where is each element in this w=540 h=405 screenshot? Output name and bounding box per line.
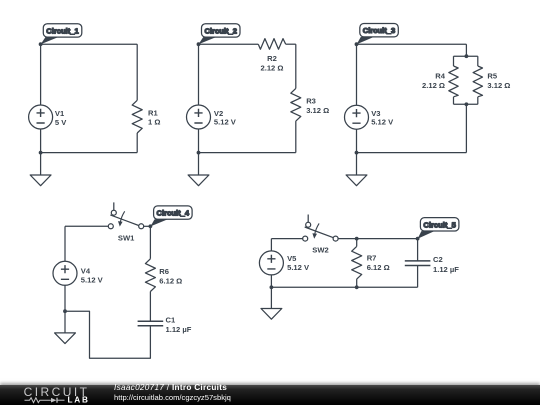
resistor R6 [145, 259, 155, 292]
switch SW2 lever [305, 227, 333, 238]
ground (circuit 4) [55, 333, 76, 344]
wire: R4 top lead [453, 56, 455, 66]
svg-text:5.12 V: 5.12 V [81, 276, 104, 285]
wire: C2 bottom lead [417, 266, 419, 288]
wire: R7 top lead [356, 239, 358, 247]
wire: circuit 3 top rail [357, 43, 467, 45]
switch SW1 top contact [111, 210, 116, 215]
svg-text:6.12 Ω: 6.12 Ω [367, 263, 390, 272]
svg-text:Circuit_2: Circuit_2 [204, 26, 237, 35]
ground (circuit 1) [30, 175, 51, 186]
svg-text:Circuit_1: Circuit_1 [46, 26, 79, 35]
callout Circuit_4 [151, 219, 168, 226]
svg-text:C2: C2 [433, 255, 443, 264]
wire: parallel top bus [454, 55, 478, 57]
svg-text:5.12 V: 5.12 V [287, 263, 310, 272]
svg-text:R3: R3 [306, 97, 316, 106]
voltage source V3 [345, 105, 369, 129]
svg-text:6.12 Ω: 6.12 Ω [159, 276, 182, 285]
wire: circuit 3 bottom rail [357, 152, 467, 154]
svg-text:Circuit_5: Circuit_5 [423, 220, 456, 229]
resistor R1 [132, 100, 142, 133]
wire: SW2 top throw stub [307, 215, 309, 223]
wire: SW2 common to R7 node [338, 238, 357, 240]
svg-text:5 V: 5 V [55, 118, 67, 127]
wire: circuit 1 top rail [41, 43, 138, 45]
callout Circuit_3 [357, 37, 374, 44]
resistor R7 [352, 246, 362, 279]
wire: circuit 2 top rail right [286, 43, 296, 45]
node: circuit 4 bottom-left junction [63, 309, 67, 313]
node: circuit 5 switch output junction [355, 237, 359, 241]
switch SW1 left contact [108, 224, 113, 229]
wire: circuit 3 left side top [356, 44, 358, 105]
node: R7 bottom junction [355, 285, 359, 289]
wire: circuit 4 left side top [64, 226, 66, 261]
wire: SW1 common to node [144, 225, 151, 227]
wire: circuit 1 left side bottom to ground [40, 129, 42, 175]
node: circuit 1 bottom-left junction [39, 151, 43, 155]
resistor R5 [473, 66, 482, 97]
node: C2 top junction [416, 237, 420, 241]
ground (circuit 3) [346, 175, 367, 186]
svg-text:Circuit_3: Circuit_3 [363, 26, 396, 35]
wire: circuit 2 bottom rail [199, 152, 296, 154]
wire: circuit 2 left side bottom to ground [198, 129, 200, 175]
svg-text:V4: V4 [81, 267, 91, 276]
wire: circuit 2 right side top lead [295, 44, 297, 88]
resistor R2 [258, 39, 285, 50]
svg-text:LAB: LAB [68, 396, 90, 405]
switch SW2 left contact [303, 236, 308, 241]
svg-text:R1: R1 [148, 108, 158, 117]
wire: R5 top lead [477, 56, 479, 66]
svg-text:R5: R5 [487, 71, 497, 80]
svg-text:1 Ω: 1 Ω [148, 118, 160, 127]
svg-text:2.12 Ω: 2.12 Ω [261, 64, 284, 73]
wire: circuit 3 left side bottom to ground [356, 129, 358, 175]
footer bar [0, 385, 540, 405]
svg-text:2.12 Ω: 2.12 Ω [422, 81, 445, 90]
node: parallel pair top junction [465, 54, 469, 58]
wire: SW1 top throw stub [113, 202, 115, 210]
wire: circuit 3 right side down [465, 104, 467, 152]
voltage source V5 [259, 251, 283, 275]
voltage source V4 [53, 261, 77, 285]
wire: circuit 5 left side bottom to ground [270, 275, 272, 309]
wire: circuit 5 left side top [270, 239, 272, 251]
switch SW2 top contact [306, 222, 311, 227]
ground (circuit 2) [188, 175, 209, 186]
resistor R4 [449, 66, 458, 97]
wire: circuit 3 top drop to parallel pair [465, 44, 467, 56]
wire: circuit 5 top rail to switch [271, 238, 302, 240]
node: circuit 2 top-left junction [197, 42, 201, 46]
svg-text:Circuit_4: Circuit_4 [157, 209, 190, 218]
node: circuit 3 bottom-left junction [355, 151, 359, 155]
node: circuit 2 bottom-left junction [197, 151, 201, 155]
footer credit text [114, 384, 227, 392]
node: circuit 4 switch output junction [149, 224, 153, 228]
wire: circuit 2 top rail left [199, 43, 259, 45]
wire: circuit 2 left side top [198, 44, 200, 105]
svg-text:V5: V5 [287, 254, 297, 263]
wire: circuit 5 bottom rail [271, 286, 417, 288]
wire: circuit 1 right side top lead [136, 44, 138, 100]
capacitor C2 [405, 261, 431, 266]
svg-text:C1: C1 [166, 316, 176, 325]
ground (circuit 5) [261, 309, 282, 320]
svg-text:R2: R2 [267, 54, 277, 63]
wire: R4 bottom lead [453, 97, 455, 104]
svg-text:1.12 µF: 1.12 µF [433, 265, 459, 274]
svg-text:SW2: SW2 [312, 246, 328, 255]
svg-text:3.12 Ω: 3.12 Ω [306, 106, 329, 115]
svg-text:SW1: SW1 [118, 233, 135, 242]
wire: R6 to C1 [149, 291, 151, 321]
wire: parallel bottom bus [454, 103, 478, 105]
wire: circuit 2 right side bottom lead [295, 121, 297, 153]
node: circuit 5 bottom-left junction [270, 285, 274, 289]
switch SW1 actuation arrow [120, 211, 124, 222]
wire: circuit 4 top rail to switch [65, 225, 108, 227]
voltage source V1 [29, 105, 53, 129]
switch SW2 common contact [333, 236, 338, 241]
svg-text:R7: R7 [367, 253, 377, 262]
svg-text:R6: R6 [159, 267, 169, 276]
wire: circuit 1 left side top [40, 44, 42, 105]
callout Circuit_5 [418, 231, 435, 239]
wire: circuit 1 bottom rail [41, 152, 138, 154]
wire: circuit 1 right side bottom lead [136, 133, 138, 153]
CircuitLab logo [22, 384, 112, 405]
wire: R7 bottom lead [356, 279, 358, 287]
wire: C1 down and around to V4 [65, 311, 150, 358]
wire: circuit 4 left side bottom to ground [64, 285, 66, 333]
switch SW2 actuation arrow [315, 223, 319, 234]
svg-text:5.12 V: 5.12 V [371, 118, 394, 127]
capacitor C1 [138, 321, 164, 326]
voltage source V2 [187, 105, 211, 129]
wire: R5 bottom lead [477, 97, 479, 104]
svg-text:V1: V1 [55, 109, 65, 118]
svg-text:5.12 V: 5.12 V [214, 117, 237, 126]
wire: circuit 4 drop to R6 [149, 226, 151, 258]
node: circuit 1 top-left junction [39, 42, 43, 46]
callout Circuit_2 [199, 37, 217, 44]
svg-text:3.12 Ω: 3.12 Ω [487, 81, 510, 90]
switch SW1 lever [110, 215, 138, 226]
resistor R3 [291, 88, 301, 121]
node: parallel pair bottom junction [465, 102, 469, 106]
callout Circuit_1 [41, 37, 59, 44]
wire: circuit 5 top rail right to C2 [357, 238, 418, 240]
wire: C2 top lead [417, 239, 419, 261]
node: circuit 3 top-left junction [355, 42, 359, 46]
svg-text:R4: R4 [435, 71, 445, 80]
switch SW1 common contact [139, 224, 144, 229]
svg-text:1.12 µF: 1.12 µF [166, 325, 192, 334]
